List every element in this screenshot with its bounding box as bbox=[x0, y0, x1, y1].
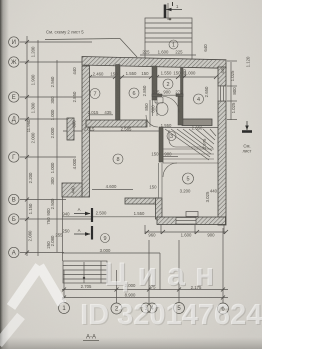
svg-text:1.550: 1.550 bbox=[126, 71, 137, 76]
svg-text:9: 9 bbox=[103, 236, 106, 242]
svg-text:2.500: 2.500 bbox=[96, 211, 107, 216]
svg-text:150: 150 bbox=[110, 72, 118, 77]
svg-text:750: 750 bbox=[46, 217, 51, 225]
svg-text:В: В bbox=[12, 198, 16, 204]
svg-text:См. схему 2 лист 5: См. схему 2 лист 5 bbox=[46, 30, 84, 35]
svg-text:800: 800 bbox=[151, 105, 156, 113]
svg-text:И: И bbox=[12, 40, 16, 46]
svg-text:800: 800 bbox=[232, 87, 237, 95]
svg-text:2.585: 2.585 bbox=[121, 127, 132, 132]
svg-text:440: 440 bbox=[72, 67, 77, 75]
svg-text:900: 900 bbox=[182, 69, 187, 77]
svg-text:4.600: 4.600 bbox=[106, 184, 117, 189]
svg-text:1.550: 1.550 bbox=[161, 123, 172, 128]
svg-text:2: 2 bbox=[166, 82, 169, 88]
svg-text:1.300: 1.300 bbox=[31, 102, 36, 113]
svg-text:1.000: 1.000 bbox=[50, 162, 55, 173]
svg-text:2.850: 2.850 bbox=[72, 91, 77, 102]
svg-text:150: 150 bbox=[151, 152, 159, 157]
svg-text:150: 150 bbox=[173, 71, 181, 76]
svg-text:900: 900 bbox=[207, 233, 215, 238]
svg-text:Циан: Циан bbox=[104, 256, 224, 292]
svg-text:3: 3 bbox=[170, 134, 173, 140]
svg-text:440: 440 bbox=[210, 189, 218, 194]
svg-text:3.025: 3.025 bbox=[205, 191, 210, 202]
svg-text:Б: Б bbox=[12, 217, 16, 223]
svg-text:1.200: 1.200 bbox=[31, 46, 36, 57]
svg-text:1.550: 1.550 bbox=[161, 71, 172, 76]
svg-text:225: 225 bbox=[142, 50, 150, 55]
svg-text:640: 640 bbox=[203, 44, 208, 52]
svg-text:3.200: 3.200 bbox=[180, 189, 191, 194]
svg-text:960: 960 bbox=[148, 233, 156, 238]
svg-text:8.900: 8.900 bbox=[125, 293, 136, 298]
svg-text:150: 150 bbox=[141, 71, 149, 76]
svg-text:11.960: 11.960 bbox=[26, 119, 31, 132]
svg-text:300: 300 bbox=[72, 120, 77, 128]
svg-text:440: 440 bbox=[220, 66, 225, 74]
svg-text:3.000: 3.000 bbox=[100, 248, 111, 253]
svg-text:А: А bbox=[78, 207, 81, 212]
svg-text:1.600: 1.600 bbox=[181, 233, 192, 238]
svg-text:Ж: Ж bbox=[11, 60, 17, 66]
svg-text:435: 435 bbox=[104, 110, 112, 115]
svg-text:1.000: 1.000 bbox=[50, 109, 55, 120]
svg-text:А: А bbox=[78, 228, 81, 233]
svg-text:7: 7 bbox=[93, 92, 96, 98]
svg-text:2.200: 2.200 bbox=[28, 172, 33, 183]
svg-text:5: 5 bbox=[186, 177, 189, 183]
svg-text:1.900: 1.900 bbox=[31, 74, 36, 85]
svg-text:250: 250 bbox=[46, 241, 51, 249]
svg-text:225: 225 bbox=[175, 50, 183, 55]
svg-text:300: 300 bbox=[50, 96, 55, 104]
svg-text:1.120: 1.120 bbox=[246, 56, 251, 67]
svg-text:3.975: 3.975 bbox=[202, 138, 207, 149]
svg-text:1.150: 1.150 bbox=[28, 203, 33, 214]
svg-text:4: 4 bbox=[197, 97, 200, 103]
svg-text:1: 1 bbox=[172, 43, 175, 49]
svg-text:440: 440 bbox=[71, 186, 76, 194]
svg-text:2.015: 2.015 bbox=[88, 110, 99, 115]
svg-text:8: 8 bbox=[116, 157, 119, 163]
svg-text:255: 255 bbox=[55, 233, 63, 238]
svg-text:940: 940 bbox=[62, 212, 70, 217]
svg-text:4.000: 4.000 bbox=[72, 158, 77, 169]
svg-text:лист: лист bbox=[242, 149, 251, 154]
svg-text:250: 250 bbox=[62, 229, 70, 234]
svg-text:900: 900 bbox=[164, 152, 172, 157]
svg-text:Д: Д bbox=[12, 117, 16, 123]
svg-text:2.500: 2.500 bbox=[50, 198, 55, 209]
svg-text:375: 375 bbox=[152, 90, 160, 95]
svg-text:275: 275 bbox=[175, 90, 183, 95]
svg-text:1.600: 1.600 bbox=[158, 50, 169, 55]
svg-text:2.460: 2.460 bbox=[93, 72, 104, 77]
svg-text:150: 150 bbox=[149, 185, 157, 190]
svg-text:1.025: 1.025 bbox=[231, 102, 236, 113]
svg-text:900: 900 bbox=[163, 90, 171, 95]
svg-text:2.650: 2.650 bbox=[192, 126, 203, 131]
svg-text:6: 6 bbox=[132, 91, 135, 97]
svg-text:ID 320147624: ID 320147624 bbox=[80, 299, 262, 331]
svg-text:900: 900 bbox=[46, 208, 51, 216]
svg-text:2.850: 2.850 bbox=[142, 85, 147, 96]
svg-text:А-А: А-А bbox=[86, 335, 96, 341]
svg-text:2.015: 2.015 bbox=[84, 127, 95, 132]
svg-text:2.650: 2.650 bbox=[204, 86, 209, 97]
svg-text:Е: Е bbox=[12, 95, 16, 101]
svg-text:850: 850 bbox=[144, 103, 149, 111]
svg-text:2.000: 2.000 bbox=[31, 132, 36, 143]
svg-text:А: А bbox=[12, 251, 16, 257]
svg-text:1.550: 1.550 bbox=[134, 211, 145, 216]
svg-text:1.025: 1.025 bbox=[230, 70, 235, 81]
svg-text:2.080: 2.080 bbox=[28, 230, 33, 241]
svg-text:2.000: 2.000 bbox=[50, 127, 55, 138]
svg-text:300: 300 bbox=[50, 177, 55, 185]
svg-text:2.560: 2.560 bbox=[50, 76, 55, 87]
svg-text:2.705: 2.705 bbox=[81, 284, 92, 289]
